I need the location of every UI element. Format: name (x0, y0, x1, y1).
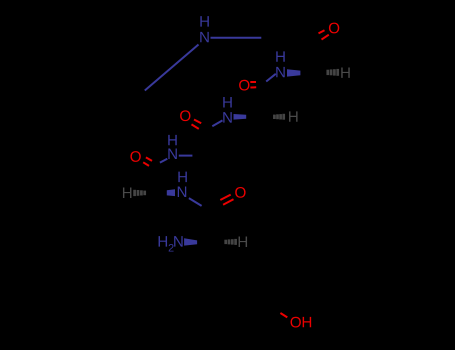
amide O2 label (O= mid) (239, 80, 249, 91)
wire C3=O3 double bond dash 2 (192, 124, 199, 128)
wire N1 to CH2 right (211, 37, 262, 39)
wire C2=O2 double bond dash 2 (250, 86, 256, 88)
wire C5=O5 double bond dash 1 (220, 195, 230, 200)
amide N5 label N (178, 187, 186, 197)
amide N4 label N (168, 149, 176, 159)
wire N4 to carbonyl C down-left (160, 159, 167, 163)
aldehyde O1 label (top right C=O) (329, 23, 339, 34)
wedge bond N6 to stereocenter CA4 (184, 238, 197, 245)
wire C2=O2 double bond dash 1 (250, 81, 256, 83)
wire N3 to carbonyl C down-left (212, 120, 222, 126)
amide N3 label H (223, 97, 231, 107)
amide N2 label N (276, 67, 284, 77)
hash bond CA4 to stereo H (226, 239, 236, 245)
wire C3=O3 double bond dash 1 (194, 120, 201, 124)
stereo H label right of CA1 (341, 67, 349, 77)
amine H2N label subscript 2 (169, 244, 174, 252)
wire N2 to carbonyl C down-left (266, 74, 276, 82)
amine N1 label N (200, 32, 208, 42)
wedge bond CA3 to N5 (167, 189, 175, 196)
wire C5=O5 double bond dash 2 (223, 199, 233, 205)
stereo H label right of CA4 (239, 237, 247, 247)
phenol OH label O (291, 317, 301, 328)
amide N4 label H (168, 135, 176, 145)
amide O4 label (130, 151, 140, 162)
hash bond CA2 to stereo H (274, 114, 283, 120)
amine H2N label N (174, 236, 182, 246)
wire N4 to CH2 right (179, 155, 193, 157)
wire ring C6 to phenol O (280, 313, 287, 317)
phenol OH label H (303, 317, 311, 327)
wire C1=O1 double bond dash 2 (322, 35, 329, 40)
amide O5 label (235, 187, 245, 198)
wedge bond N2 to stereocenter CA1 (287, 69, 300, 76)
wire N5 to carbonyl C down-right (189, 198, 202, 206)
amine N1 label H (top secondary amine) (200, 16, 208, 26)
amide N3 label N (223, 112, 231, 122)
stereo H label left of CA3 (123, 188, 131, 198)
stereo H label right of CA2 (289, 111, 297, 121)
amine H2N label H (159, 236, 167, 246)
amide O3 label (180, 110, 190, 121)
amide N2 label H (276, 51, 284, 61)
wire N1 to CH2 down-left (145, 45, 199, 91)
amide N5 label H (178, 172, 186, 182)
wedge bond N3 to stereocenter CA2 (234, 114, 247, 120)
wire C4=O4 double bond dash 2 (143, 162, 149, 166)
wire C4=O4 double bond dash 1 (146, 157, 152, 161)
hash bond CA3 to stereo H (135, 190, 145, 196)
wire C1=O1 double bond dash 1 (319, 30, 325, 33)
hash bond CA1 to stereo H (328, 69, 338, 76)
